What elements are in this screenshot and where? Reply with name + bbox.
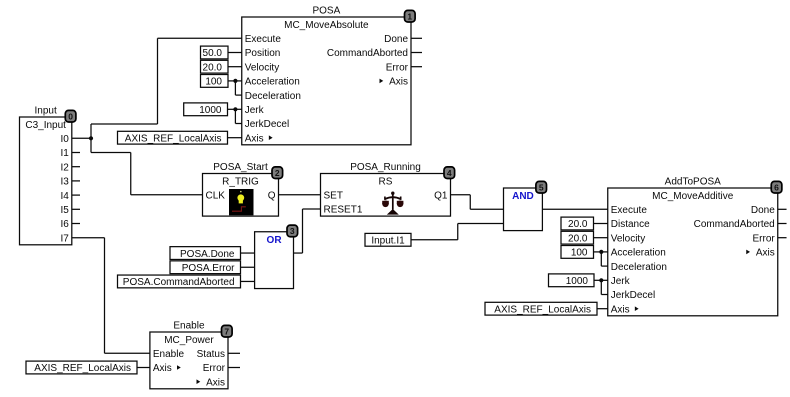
svg-text:Error: Error: [203, 363, 226, 374]
svg-text:C3_Input: C3_Input: [25, 120, 66, 131]
wire AddToPOSA output stub 1: [778, 223, 787, 225]
svg-text:SET: SET: [324, 191, 343, 202]
svg-text:RS: RS: [379, 176, 393, 187]
block U0_Input output pin I5: [60, 205, 69, 216]
block U2_POSA_Start outline: [203, 174, 279, 217]
wire 20.0 to Velocity2: [594, 237, 608, 239]
operand box value 20.0 Velocity: [201, 60, 229, 73]
junction acc-dec junction 2: [599, 250, 603, 254]
block U0_Input header C3_Input: [25, 120, 66, 131]
svg-text:MC_MoveAbsolute: MC_MoveAbsolute: [284, 20, 369, 31]
block U6_AddToPOSA output pin Done: [751, 205, 775, 216]
block U0_Input outline: [20, 117, 72, 245]
block U6_AddToPOSA input pin Velocity: [611, 233, 645, 244]
svg-text:Error: Error: [753, 233, 776, 244]
svg-text:Jerk: Jerk: [611, 276, 631, 287]
wire I7 to Enable: [72, 238, 150, 354]
svg-text:RESET1: RESET1: [324, 205, 363, 216]
svg-text:Velocity: Velocity: [611, 233, 645, 244]
block U6_AddToPOSA input pin Deceleration: [611, 262, 667, 273]
svg-text:20.0: 20.0: [568, 219, 588, 230]
wire Input I4 open stub: [72, 194, 80, 196]
wire Enable output stub 1: [228, 367, 240, 369]
svg-text:Input: Input: [35, 105, 57, 116]
block U4_POSA_Running header RS: [379, 176, 393, 187]
svg-text:POSA.CommandAborted: POSA.CommandAborted: [123, 277, 235, 288]
svg-text:AXIS_REF_LocalAxis: AXIS_REF_LocalAxis: [34, 363, 131, 374]
svg-text:I4: I4: [60, 191, 69, 202]
junction acc-dec junction: [233, 79, 237, 83]
block U0_Input output pin I3: [60, 177, 69, 188]
block U6_AddToPOSA badge 6: [771, 181, 782, 193]
wire axisref to AddToPOSA Axis: [597, 308, 608, 310]
block U6_AddToPOSA input pin Distance: [611, 219, 650, 230]
wire I0 output: [72, 137, 91, 139]
block U7_Enable input pin Axis: [153, 363, 181, 374]
svg-text:POSA: POSA: [312, 5, 340, 16]
svg-text:I5: I5: [60, 205, 69, 216]
block U2_POSA_Start title: [213, 162, 268, 173]
block U5_AND badge 5: [536, 181, 547, 193]
svg-text:I0: I0: [60, 134, 69, 145]
svg-text:7: 7: [224, 326, 229, 336]
block U1_POSA input pin Velocity: [245, 62, 279, 73]
block U7_Enable output pin Axis: [197, 377, 226, 388]
block U1_POSA header MC_MoveAbsolute: [284, 20, 369, 31]
block U0_Input output pin I4: [60, 191, 69, 202]
svg-text:Position: Position: [245, 48, 281, 59]
wire axisref to Enable Axis: [137, 367, 150, 369]
block U1_POSA output pin Error: [386, 62, 409, 73]
wire Q1 to AND in1: [451, 195, 504, 210]
svg-text:Status: Status: [197, 349, 225, 360]
wire Input I1 open stub: [72, 152, 80, 154]
wire Input I5 open stub: [72, 208, 80, 210]
icon RS balance scales: [382, 192, 403, 215]
svg-text:4: 4: [447, 168, 452, 178]
block U4_POSA_Running input pin RESET1: [324, 205, 363, 216]
junction jerk junction 2: [599, 278, 603, 282]
wire Input I3 open stub: [72, 180, 80, 182]
block U6_AddToPOSA output pin Axis: [746, 248, 775, 259]
svg-text:Execute: Execute: [611, 205, 648, 216]
wire Input I2 open stub: [72, 166, 80, 168]
wire posa.error to OR: [241, 266, 255, 268]
block U4_POSA_Running title: [350, 162, 421, 173]
block U6_AddToPOSA input pin Jerk: [611, 276, 631, 287]
svg-text:POSA_Start: POSA_Start: [213, 162, 268, 173]
block U1_POSA title: [312, 5, 340, 16]
block U4_POSA_Running input pin SET: [324, 191, 343, 202]
svg-text:20.0: 20.0: [203, 62, 223, 73]
wire 100 branch to Deceleration2: [601, 252, 607, 266]
svg-text:MC_MoveAdditive: MC_MoveAdditive: [652, 191, 734, 202]
block U1_POSA badge 1: [405, 10, 416, 22]
block U4_POSA_Running output pin Q1: [434, 191, 448, 202]
svg-text:AXIS_REF_LocalAxis: AXIS_REF_LocalAxis: [494, 304, 591, 315]
block U2_POSA_Start input pin CLK: [206, 191, 226, 202]
operand box value 50.0 Position: [201, 46, 229, 59]
block U6_AddToPOSA input pin Execute: [611, 205, 648, 216]
svg-text:3: 3: [290, 226, 295, 236]
svg-text:Axis: Axis: [206, 377, 225, 388]
block U1_POSA output pin CommandAborted: [327, 48, 408, 59]
svg-text:OR: OR: [267, 235, 283, 246]
svg-text:POSA.Done: POSA.Done: [180, 249, 235, 260]
block U0_Input output pin I2: [60, 162, 69, 173]
wire Q to SET: [279, 194, 321, 196]
wire Input I6 open stub: [72, 223, 80, 225]
block U7_Enable output pin Error: [203, 363, 226, 374]
wire Input.I1 to AND in2: [411, 224, 504, 240]
svg-text:5: 5: [539, 182, 544, 192]
svg-text:CLK: CLK: [206, 191, 226, 202]
wire 20.0 to Distance: [594, 223, 608, 225]
block U3_OR label OR: [267, 235, 283, 246]
svg-text:Enable: Enable: [173, 320, 205, 331]
svg-text:Jerk: Jerk: [245, 105, 265, 116]
svg-text:1000: 1000: [199, 105, 222, 116]
svg-text:I6: I6: [60, 219, 69, 230]
svg-text:100: 100: [205, 77, 222, 88]
block U6_AddToPOSA input pin JerkDecel: [611, 290, 655, 301]
svg-text:Q1: Q1: [434, 191, 448, 202]
operand box operand POSA.CommandAborted: [118, 275, 241, 288]
operand box operand POSA.Error: [170, 261, 241, 274]
block U3_OR badge 3: [287, 225, 298, 237]
svg-text:Axis: Axis: [153, 363, 172, 374]
wire POSA output stub 2: [411, 66, 422, 68]
svg-text:6: 6: [774, 182, 779, 192]
block U7_Enable input pin Enable: [153, 349, 185, 360]
block U2_POSA_Start header R_TRIG: [222, 176, 259, 187]
wire 100 to Acceleration: [228, 80, 242, 82]
svg-text:Input.I1: Input.I1: [371, 235, 405, 246]
block U1_POSA input pin Acceleration: [245, 77, 300, 88]
svg-text:20.0: 20.0: [568, 233, 588, 244]
block U4_POSA_Running badge 4: [444, 167, 455, 179]
wire posa.done to OR: [241, 252, 255, 254]
block U0_Input output pin I7: [60, 233, 69, 244]
operand box value 100 Acceleration: [201, 75, 229, 88]
block U3_OR outline: [255, 232, 294, 289]
svg-text:Execute: Execute: [245, 34, 282, 45]
svg-text:Velocity: Velocity: [245, 62, 279, 73]
svg-text:JerkDecel: JerkDecel: [611, 290, 655, 301]
icon R_TRIG lamp: [229, 189, 254, 215]
operand box value 1000 Jerk: [184, 103, 228, 116]
operand box operand AXIS_REF_LocalAxis AddToPOSA: [485, 302, 597, 315]
svg-text:POSA.Error: POSA.Error: [182, 263, 235, 274]
svg-text:Axis: Axis: [245, 133, 264, 144]
operand box Input.I1: [365, 233, 411, 246]
block U1_POSA input pin Position: [245, 48, 281, 59]
wire 1000 to Jerk: [228, 108, 242, 110]
block U6_AddToPOSA input pin Axis: [611, 304, 639, 315]
wire OR out to RESET1: [294, 209, 321, 253]
svg-text:I1: I1: [60, 148, 69, 159]
svg-text:0: 0: [68, 111, 73, 121]
svg-text:Enable: Enable: [153, 349, 185, 360]
block U1_POSA input pin Deceleration: [245, 91, 301, 102]
junction I0 junction: [89, 136, 93, 140]
block U2_POSA_Start badge 2: [272, 167, 283, 179]
svg-text:100: 100: [571, 248, 588, 259]
block U6_AddToPOSA output pin CommandAborted: [694, 219, 775, 230]
svg-text:Deceleration: Deceleration: [611, 262, 667, 273]
wire axisref to POSA Axis: [228, 137, 242, 139]
block U0_Input title: [35, 105, 57, 116]
svg-text:Axis: Axis: [389, 77, 408, 88]
svg-text:R_TRIG: R_TRIG: [222, 176, 259, 187]
wire 100 branch to Deceleration: [235, 81, 241, 95]
block U6_AddToPOSA outline: [608, 188, 778, 316]
block U2_POSA_Start output pin Q: [268, 191, 276, 202]
block U1_POSA output pin Axis: [380, 77, 409, 88]
block U5_AND label AND: [512, 191, 534, 202]
wire POSA output stub 0: [411, 37, 422, 39]
block U5_AND outline: [504, 188, 543, 231]
svg-text:AXIS_REF_LocalAxis: AXIS_REF_LocalAxis: [125, 133, 222, 144]
operand box operand AXIS_REF_LocalAxis POSA: [118, 131, 228, 144]
svg-text:Done: Done: [751, 205, 775, 216]
block U1_POSA input pin JerkDecel: [245, 119, 289, 130]
block U4_POSA_Running outline: [321, 174, 451, 217]
svg-text:2: 2: [275, 168, 280, 178]
svg-text:AddToPOSA: AddToPOSA: [665, 176, 721, 187]
block U0_Input output pin I6: [60, 219, 69, 230]
svg-text:1: 1: [407, 11, 412, 21]
operand box operand POSA.Done: [170, 247, 241, 260]
wire AddToPOSA output stub 2: [778, 237, 787, 239]
block U0_Input output pin I1: [60, 148, 69, 159]
svg-text:50.0: 50.0: [203, 48, 223, 59]
wire I0 down to CLK: [91, 153, 203, 195]
svg-text:MC_Power: MC_Power: [164, 335, 214, 346]
wire I0 vertical branch: [90, 124, 92, 153]
block U1_POSA outline: [242, 17, 411, 145]
wire 100 to Acceleration2: [594, 251, 608, 253]
wire Enable output stub 0: [228, 352, 240, 354]
svg-text:Error: Error: [386, 62, 409, 73]
svg-text:Acceleration: Acceleration: [611, 248, 666, 259]
wire AND out to Execute2: [542, 208, 607, 210]
block U7_Enable badge 7: [222, 325, 233, 337]
svg-text:Axis: Axis: [756, 248, 775, 259]
svg-text:POSA_Running: POSA_Running: [350, 162, 421, 173]
block U7_Enable header MC_Power: [164, 335, 214, 346]
svg-text:Deceleration: Deceleration: [245, 91, 301, 102]
wire AddToPOSA output stub 0: [778, 208, 787, 210]
svg-text:Axis: Axis: [611, 304, 630, 315]
block U1_POSA input pin Axis: [245, 133, 273, 144]
block U6_AddToPOSA header MC_MoveAdditive: [652, 191, 734, 202]
operand box operand AXIS_REF_LocalAxis Enable: [26, 361, 137, 374]
block U7_Enable output pin Status: [197, 349, 225, 360]
wire I0 up to Execute: [91, 38, 242, 124]
svg-text:I3: I3: [60, 177, 69, 188]
block U6_AddToPOSA input pin Acceleration: [611, 248, 666, 259]
junction jerk junction: [233, 107, 237, 111]
svg-text:JerkDecel: JerkDecel: [245, 119, 289, 130]
svg-text:Q: Q: [268, 191, 276, 202]
svg-text:I7: I7: [60, 233, 69, 244]
block U7_Enable outline: [150, 332, 228, 389]
block U0_Input badge 0: [65, 110, 76, 122]
operand box value 100 Acceleration2: [561, 246, 594, 259]
block U1_POSA output pin Done: [384, 34, 408, 45]
svg-text:1000: 1000: [566, 276, 589, 287]
wire 20.0 to Velocity: [228, 66, 242, 68]
block U6_AddToPOSA output pin Error: [753, 233, 776, 244]
wire 1000 branch to JerkDecel: [235, 109, 241, 123]
block U1_POSA input pin Execute: [245, 34, 282, 45]
svg-text:I2: I2: [60, 162, 69, 173]
svg-text:Acceleration: Acceleration: [245, 77, 300, 88]
wire POSA output stub 1: [411, 52, 422, 54]
operand box value 20.0 Velocity2: [561, 231, 594, 244]
block U7_Enable title: [173, 320, 205, 331]
block U1_POSA input pin Jerk: [245, 105, 265, 116]
wire posa.cmdaborted to OR: [241, 280, 255, 282]
wire 1000 branch to JerkDecel2: [601, 280, 607, 294]
wire 50.0 to Position: [228, 52, 242, 54]
block U0_Input output pin I0: [60, 134, 69, 145]
svg-text:CommandAborted: CommandAborted: [694, 219, 775, 230]
svg-text:AND: AND: [512, 191, 534, 202]
svg-text:Done: Done: [384, 34, 408, 45]
wire 1000 to Jerk2: [594, 279, 608, 281]
block U6_AddToPOSA title: [665, 176, 721, 187]
operand box value 20.0 Distance: [561, 217, 594, 230]
operand box value 1000 Jerk2: [549, 274, 595, 287]
svg-text:Distance: Distance: [611, 219, 650, 230]
svg-text:CommandAborted: CommandAborted: [327, 48, 408, 59]
